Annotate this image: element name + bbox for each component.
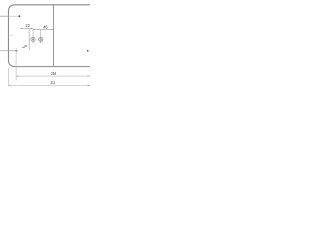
panel seam vertical edge <box>53 5 55 67</box>
svg-text:22: 22 <box>26 23 31 28</box>
dim 254 <box>16 75 90 77</box>
top leader line with diamond arrow <box>0 15 8 17</box>
dim 311 <box>8 85 90 87</box>
ticks below keyholes <box>34 42 36 44</box>
svg-text:311: 311 <box>51 80 56 86</box>
extension line through lower diamond down to 254 dim <box>15 48 17 80</box>
small stacked annotation <box>24 45 27 47</box>
dim 22 line <box>20 28 33 30</box>
left extension line for 311 <box>7 68 9 86</box>
small dark mark near right edge <box>87 50 88 52</box>
keyhole 1 <box>31 37 35 41</box>
svg-text:254: 254 <box>51 71 57 77</box>
seam tick on left <box>9 35 13 37</box>
dim 46 line <box>33 29 53 31</box>
keyhole 2 <box>39 37 43 41</box>
svg-text:46: 46 <box>43 24 48 29</box>
keyhole centerlines <box>32 29 34 43</box>
device outline (rounded left end, continues off right edge) <box>8 5 90 67</box>
lower leader line with diamond arrow <box>0 50 15 52</box>
